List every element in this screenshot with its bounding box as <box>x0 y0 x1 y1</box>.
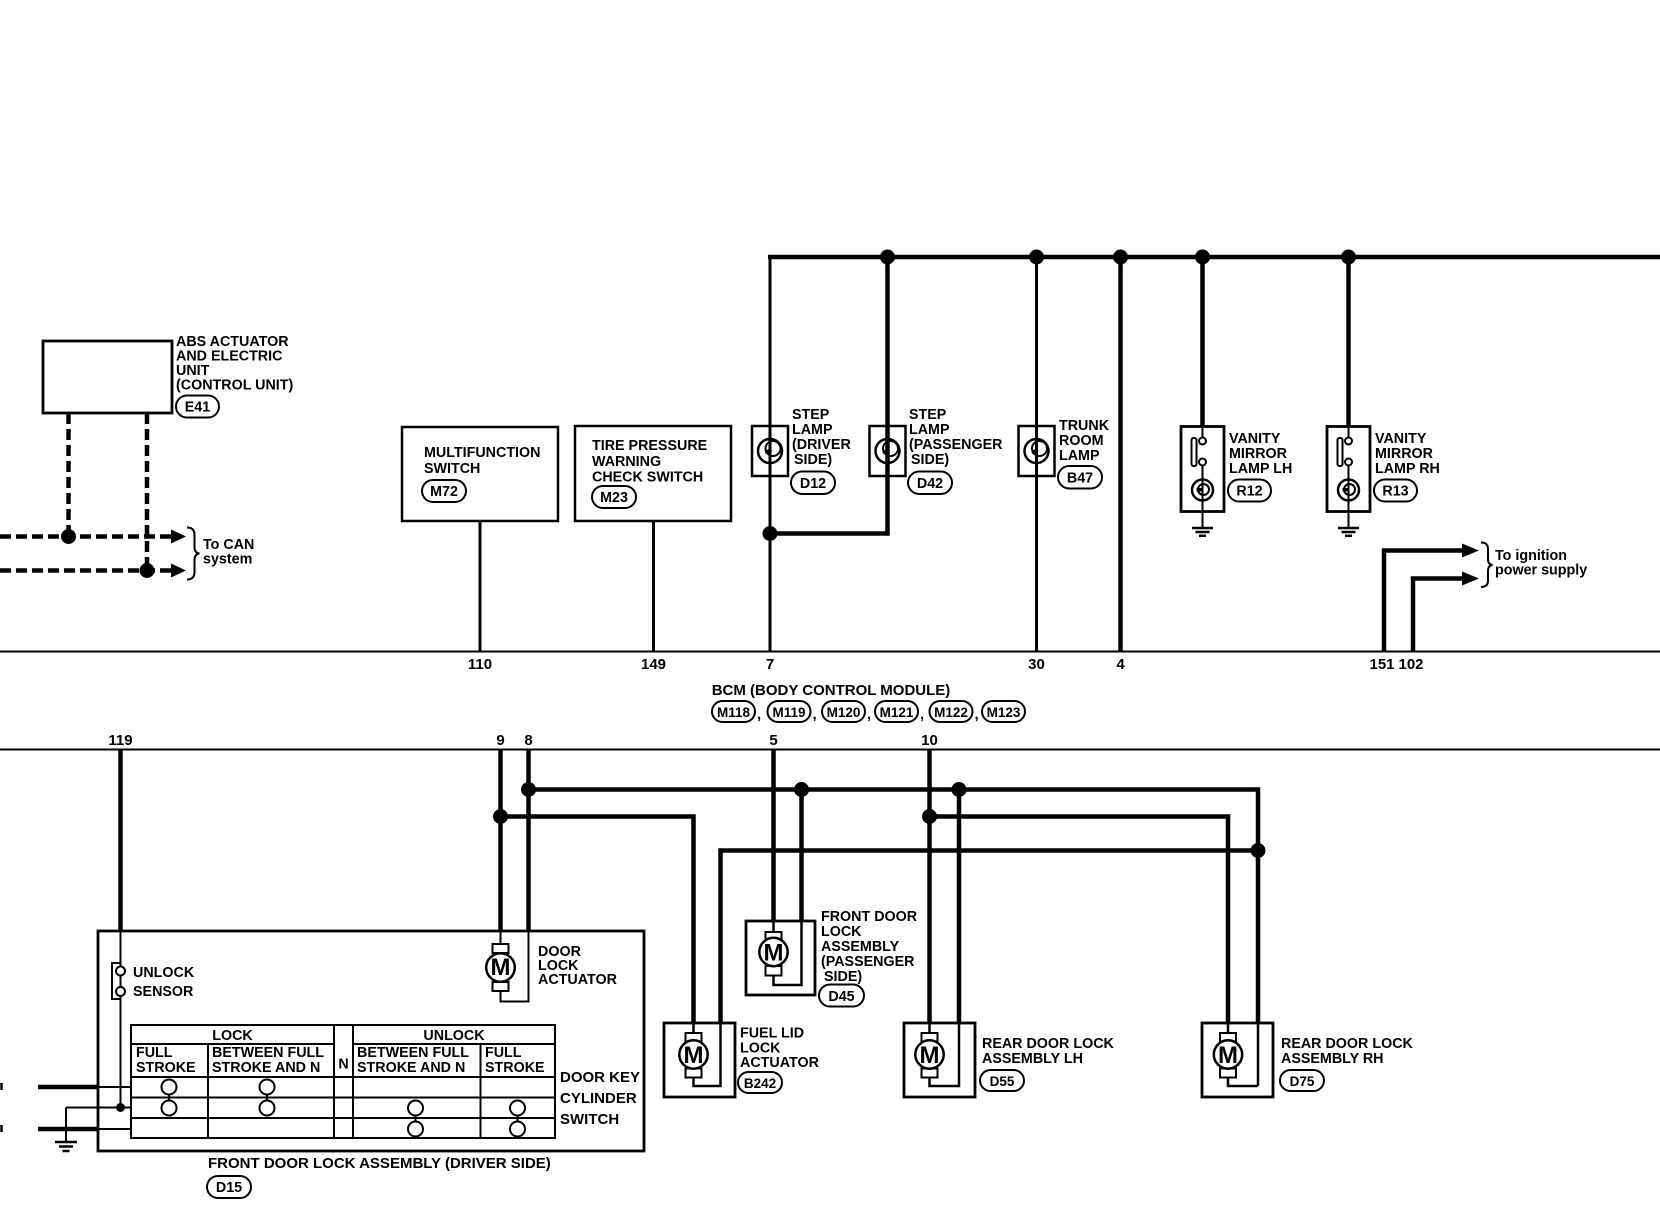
lamp D12 box <box>752 426 788 476</box>
svg-text:,: , <box>757 706 761 723</box>
lamp R12 box <box>1181 427 1224 512</box>
svg-text:9: 9 <box>496 732 504 749</box>
junction dot bus D42 <box>880 250 895 265</box>
wire pin 10 <box>927 750 932 1024</box>
assembly D45 box <box>746 921 815 995</box>
svg-text:D12: D12 <box>800 476 826 492</box>
lamp R12 bulb <box>1192 480 1213 501</box>
svg-text:B242: B242 <box>744 1076 776 1091</box>
wire D75 bottom U <box>1228 1074 1258 1086</box>
wire pin 5 <box>771 750 776 922</box>
door key cylinder switch table frame <box>131 1025 555 1138</box>
wire sensor to table and ground <box>66 1107 131 1109</box>
svg-text:M123: M123 <box>987 705 1021 720</box>
svg-text:7: 7 <box>766 656 774 673</box>
svg-text:10: 10 <box>921 732 938 749</box>
svg-text:110: 110 <box>468 656 492 673</box>
switch contacts lock col1 <box>168 1087 170 1108</box>
lamp B47 box <box>1019 426 1055 476</box>
junction dot pin10 bus B <box>922 809 937 824</box>
svg-text:M119: M119 <box>772 705 805 720</box>
connector M118 oval <box>712 701 755 722</box>
connector R13 oval <box>1374 480 1417 502</box>
connector M122 oval <box>930 701 973 722</box>
arrow ignition 1 <box>1462 544 1479 558</box>
svg-text:D75: D75 <box>1290 1074 1315 1089</box>
brace CAN <box>187 528 200 580</box>
arrow to CAN 1 <box>171 530 186 544</box>
connector M72 oval <box>422 480 466 502</box>
svg-text:5: 5 <box>769 732 777 749</box>
connector D42 oval <box>908 472 952 495</box>
connector M121 oval <box>875 701 918 722</box>
wire stub unlock row <box>38 1127 98 1132</box>
svg-text:To CANsystem: To CANsystem <box>203 537 254 568</box>
svg-text:M120: M120 <box>827 705 861 720</box>
junction dot bus R12 <box>1195 250 1210 265</box>
svg-text:BCM (BODY CONTROL MODULE): BCM (BODY CONTROL MODULE) <box>712 682 951 699</box>
switch contacts unlock col3 <box>415 1108 417 1129</box>
svg-text:,: , <box>920 706 924 723</box>
wire CAN dashed horizontal 2 <box>0 568 173 573</box>
assembly D15 box <box>98 931 644 1151</box>
motor D55 <box>922 1033 938 1042</box>
switch M72 box <box>402 427 558 521</box>
ground D15 <box>55 1142 77 1151</box>
lamp D42 bulb <box>876 439 900 463</box>
svg-text:UNLOCK: UNLOCK <box>423 1028 485 1044</box>
connector B47 oval <box>1058 466 1102 489</box>
arrow ignition 2 <box>1462 572 1479 586</box>
continuation tick unlock row <box>0 1125 3 1132</box>
switch contacts unlock col4 <box>517 1108 519 1129</box>
svg-text:M: M <box>1218 1042 1238 1069</box>
lamp D42 box <box>870 426 906 476</box>
wire bus to D12 <box>769 255 772 476</box>
connector B242 oval <box>738 1072 782 1093</box>
wire stub lock row <box>38 1085 98 1090</box>
svg-text:D42: D42 <box>917 476 943 492</box>
lamp D12 bulb <box>758 439 782 463</box>
junction dot bus pin4 <box>1113 250 1128 265</box>
BCM bottom edge <box>0 749 1660 751</box>
svg-text:8: 8 <box>524 732 532 749</box>
assembly B242 box <box>664 1023 735 1097</box>
wire pin 8 <box>526 750 531 932</box>
switch contacts lock col2 <box>266 1087 268 1108</box>
bus B right from pin 10 to D75 <box>930 817 1229 1024</box>
wire pin 110 <box>479 521 482 651</box>
switch R12 internals <box>1202 427 1204 437</box>
lamp R13 bulb <box>1338 480 1359 501</box>
svg-text:B47: B47 <box>1067 471 1093 487</box>
assembly D55 box <box>904 1023 975 1097</box>
svg-text:M23: M23 <box>600 490 628 506</box>
connector M23 oval <box>592 486 636 508</box>
continuation tick lock row <box>0 1083 3 1090</box>
connector D12 oval <box>791 472 835 495</box>
svg-text:,: , <box>867 706 871 723</box>
connector R12 oval <box>1228 480 1271 502</box>
svg-text:LOCK: LOCK <box>212 1028 253 1044</box>
connector D55 oval <box>980 1070 1024 1091</box>
svg-text:BETWEEN FULLSTROKE AND N: BETWEEN FULLSTROKE AND N <box>357 1045 469 1076</box>
ground R12 <box>1192 528 1213 536</box>
svg-text:M121: M121 <box>880 705 914 720</box>
wire bus to R13 <box>1346 255 1351 427</box>
svg-text:102: 102 <box>1398 656 1423 673</box>
junction dot pin7 <box>763 526 778 541</box>
svg-text:,: , <box>975 706 979 723</box>
lamp R13 box <box>1327 427 1370 512</box>
svg-text:151: 151 <box>1369 656 1394 673</box>
wire bus to B47 <box>1035 257 1038 476</box>
wire pin 30 <box>1035 476 1038 651</box>
connector E41 oval <box>176 396 219 418</box>
wire CAN dashed vertical 1 from E41 <box>66 413 71 537</box>
motor D45 <box>766 932 782 942</box>
power bus wire top <box>768 255 1660 260</box>
svg-text:FRONT DOOR LOCK ASSEMBLY (DRIV: FRONT DOOR LOCK ASSEMBLY (DRIVER SIDE) <box>208 1155 551 1172</box>
svg-text:D15: D15 <box>216 1180 242 1196</box>
wire bus A down to D55 <box>957 790 962 1024</box>
svg-text:M: M <box>920 1042 940 1069</box>
arrow to CAN 2 <box>171 564 186 578</box>
lamp B47 bulb <box>1025 439 1049 463</box>
junction dot bus B47 <box>1029 250 1044 265</box>
junction dot bus A D45 <box>794 782 809 797</box>
svg-text:D55: D55 <box>990 1074 1015 1089</box>
svg-text:M: M <box>491 954 511 981</box>
BCM top edge <box>0 651 1660 653</box>
wire pin 149 <box>652 521 655 651</box>
svg-text:E41: E41 <box>185 400 210 416</box>
svg-text:M: M <box>764 940 784 967</box>
wire CAN dashed horizontal 1 <box>0 534 173 539</box>
svg-text:119: 119 <box>108 732 132 749</box>
control unit E41 box <box>43 341 172 413</box>
wire pin 102 to ignition <box>1413 579 1463 652</box>
unlock sensor <box>112 963 120 999</box>
wire pin 151 to ignition <box>1384 551 1463 652</box>
unlock sensor wire <box>120 966 122 1108</box>
bus C B242 to D75 <box>694 1022 721 1086</box>
bus A from pin 8 <box>529 790 1259 1024</box>
svg-text:4: 4 <box>1116 656 1125 673</box>
switch M23 box <box>575 426 731 521</box>
switch R13 internals <box>1348 427 1350 437</box>
wire D42 to D12 junction <box>770 476 888 534</box>
connector D15 oval <box>207 1176 251 1198</box>
wire pin 7 <box>769 476 772 651</box>
motor D15 door lock actuator <box>500 944 502 953</box>
svg-text:30: 30 <box>1028 656 1045 673</box>
junction dot sensor ground <box>116 1103 125 1112</box>
svg-text:R12: R12 <box>1236 484 1262 500</box>
bus B left from pin 9 to B242 <box>501 817 694 1023</box>
svg-text:BETWEEN FULLSTROKE AND N: BETWEEN FULLSTROKE AND N <box>212 1045 324 1076</box>
svg-text:149: 149 <box>641 656 666 673</box>
svg-text:R13: R13 <box>1382 484 1408 500</box>
svg-text:ABS ACTUATORAND ELECTRICUNIT(C: ABS ACTUATORAND ELECTRICUNIT(CONTROL UNI… <box>176 334 294 394</box>
wire bus to R12 <box>1200 255 1205 427</box>
junction dot bus A D55 <box>952 782 967 797</box>
junction dot bus R13 <box>1341 250 1356 265</box>
svg-text:M72: M72 <box>430 484 458 500</box>
brace ignition <box>1481 543 1493 588</box>
wire bus to D42 <box>885 257 890 476</box>
connector D45 oval <box>819 985 864 1007</box>
motor B242 <box>686 1033 702 1042</box>
svg-text:,: , <box>813 706 817 723</box>
junction dot pin8 bus A <box>521 782 536 797</box>
junction dot CAN 1 <box>61 529 76 544</box>
svg-text:N: N <box>338 1057 348 1073</box>
svg-text:D45: D45 <box>828 989 854 1005</box>
ground R13 <box>1338 528 1359 536</box>
svg-text:M122: M122 <box>934 705 968 720</box>
assembly D75 box <box>1202 1023 1273 1097</box>
junction dot bus A bus C <box>1251 843 1266 858</box>
wire pin 9 <box>498 750 503 932</box>
connector D75 oval <box>1280 1070 1324 1091</box>
svg-text:M: M <box>684 1042 704 1069</box>
motor D75 <box>1220 1033 1236 1042</box>
connector M119 oval <box>768 701 811 722</box>
junction dot CAN 2 <box>140 563 155 578</box>
svg-text:M118: M118 <box>717 705 751 720</box>
wire pin 119 <box>118 750 123 932</box>
wire CAN dashed vertical 2 from E41 <box>145 413 150 571</box>
wire bus A down to D45 <box>799 790 804 922</box>
connector M120 oval <box>822 701 865 722</box>
junction dot pin9 bus B <box>493 809 508 824</box>
wire pin 4 <box>1118 255 1123 651</box>
connector M123 oval <box>982 701 1025 722</box>
